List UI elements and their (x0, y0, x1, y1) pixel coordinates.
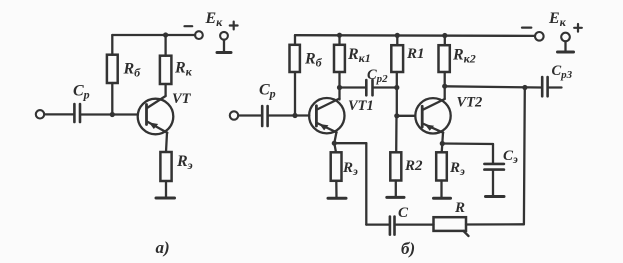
resistor Re1 (331, 152, 342, 181)
plus sign (b) (574, 24, 582, 32)
ground bar plus (b) (558, 51, 574, 54)
wire plus terminal stub (a) (223, 40, 225, 53)
junction emitter VT1 (332, 141, 337, 146)
wire output to Cp3 (445, 86, 541, 87)
svg-text:C: C (398, 205, 409, 221)
wire rail to Rk (a) (164, 35, 166, 56)
wire Rk1 to collector junction (338, 72, 340, 88)
junction rail/Rk (a) (163, 32, 168, 37)
ground Re1 (328, 197, 346, 200)
wire emitter VT2 to Ce (442, 142, 493, 145)
input terminal (a) (36, 110, 44, 118)
ground Re2 (434, 197, 451, 200)
wire feedback from emitter VT1 (334, 142, 366, 144)
resistor R tail stroke (464, 231, 469, 236)
wire junction to VT1 collector (338, 88, 340, 100)
minus sign (a) (185, 25, 193, 27)
wire Rb to rail (a) (111, 35, 113, 55)
svg-text:R1: R1 (406, 46, 425, 62)
VT emitter arrow (a) (149, 122, 158, 129)
terminal plus (b) (561, 33, 570, 42)
wire rail to Rk2 (444, 36, 446, 46)
ground bar plus (a) (217, 51, 231, 54)
junction Rk1/Cp2 (337, 85, 342, 90)
VT1 base bar (315, 106, 318, 126)
resistor Rb (a) (107, 55, 118, 83)
wire feedback down (365, 143, 367, 224)
junction R1/Cp2 (394, 85, 399, 90)
wire emitter to Re (a) (166, 133, 167, 153)
input terminal (b) (230, 111, 238, 119)
junction base VT2 (394, 113, 399, 118)
VT2 emitter arrow (425, 124, 434, 130)
junction rail/R1 (395, 33, 400, 38)
wire Rb to base (b) (294, 72, 296, 116)
wire junction to Re1 (334, 143, 336, 152)
wire Rb to base (a) (111, 83, 113, 115)
VT1 collector stroke (317, 99, 340, 110)
resistor R1 (391, 45, 403, 72)
svg-text:VT2: VT2 (457, 95, 483, 111)
capacitor Cp2 (366, 80, 372, 95)
resistor Rb (b) (290, 45, 300, 72)
transistor VT circle (a) (138, 99, 174, 135)
wire R1 node to base node VT2 (396, 88, 398, 116)
resistor Rk (a) (160, 56, 172, 84)
capacitor Ce (484, 164, 504, 170)
svg-text:R2: R2 (404, 158, 423, 174)
wire Rk to collector (a) (164, 84, 166, 96)
capacitor Cp (b) (262, 106, 267, 126)
wire feedback riser (523, 88, 526, 225)
wire R1 down to Cp2 node (396, 72, 398, 88)
resistor R feedback (434, 217, 467, 231)
VT base bar (a) (145, 105, 148, 125)
resistor Re (a) (160, 152, 171, 181)
junction emitter VT2 (440, 141, 445, 146)
VT1 emitter arrow (319, 124, 328, 130)
terminal minus (a) (195, 31, 203, 39)
junction base/Rb (b) (292, 113, 297, 118)
VT2 emitter stroke (423, 124, 444, 133)
wire Rk2 to collector junction (444, 72, 446, 86)
wire input to Cp (a) (44, 113, 73, 115)
ground R2 (387, 196, 404, 199)
transistor VT1 circle (309, 98, 344, 133)
wire Cp3 output stub (549, 86, 562, 88)
svg-text:VT1: VT1 (348, 98, 374, 114)
wire Re to ground (a) (165, 181, 167, 198)
junction rail/Rk2 (442, 33, 447, 38)
ground Ce (486, 195, 505, 198)
resistor Rk2 (439, 45, 450, 72)
wire Rb to rail (b) (294, 35, 296, 45)
svg-text:а): а) (156, 238, 170, 257)
supply rail (b) (295, 34, 535, 37)
wire R2 to ground (395, 181, 397, 198)
wire Ce to ground (492, 170, 494, 197)
wire junction to Re2 (441, 144, 444, 153)
VT2 collector stroke (423, 99, 445, 110)
plus sign (a) (230, 22, 238, 30)
resistor Re2 (436, 152, 447, 180)
VT emitter stroke (a) (147, 122, 167, 133)
svg-text:VT: VT (172, 91, 192, 107)
wire input to Cp (b) (238, 114, 260, 116)
wire Ce down (492, 144, 494, 164)
capacitor Cp (a) (74, 104, 80, 122)
wire emitter VT1 down (334, 132, 336, 143)
junction output/feedback (522, 85, 527, 90)
resistor R2 (390, 152, 401, 180)
wire rail to Rk1 (338, 35, 340, 45)
terminal plus (a) (220, 32, 228, 40)
wire base node to VT2 (397, 115, 416, 117)
wire Cp2 to R1 node (374, 86, 397, 88)
VT collector stroke (a) (147, 96, 166, 108)
minus sign (b) (522, 27, 531, 29)
wire Re2 to ground (440, 181, 442, 199)
VT2 base bar (421, 106, 424, 127)
wire emitter VT2 down (441, 133, 444, 144)
wire plus terminal stub (b) (564, 41, 566, 51)
wire rail to R1 (396, 35, 398, 45)
transistor VT2 circle (415, 98, 450, 133)
wire Cp to base VT1 (269, 114, 309, 116)
VT1 emitter stroke (317, 123, 337, 132)
resistor Rk1 (334, 45, 345, 72)
supply rail (a) (112, 34, 195, 36)
svg-text:R: R (454, 200, 465, 216)
svg-text:б): б) (401, 239, 415, 258)
wire R to feedback riser (466, 223, 524, 225)
wire feedback bottom left (366, 223, 388, 225)
ground (a) (156, 197, 175, 200)
junction Rk2/output (442, 84, 447, 89)
capacitor C feedback (390, 217, 395, 235)
wire Re1 to ground (335, 181, 338, 198)
wire Cp2 from Rk1 junction (340, 86, 366, 88)
wire C to R feedback (396, 223, 434, 225)
wire junction to VT2 collector (444, 86, 446, 99)
junction base/Rb (a) (110, 112, 115, 117)
wire Cp to base (a) (81, 113, 138, 115)
terminal minus (b) (535, 32, 544, 41)
junction rail/Rk1 (337, 33, 342, 38)
capacitor Cp3 (542, 77, 547, 96)
wire base node to R2 (395, 116, 398, 153)
